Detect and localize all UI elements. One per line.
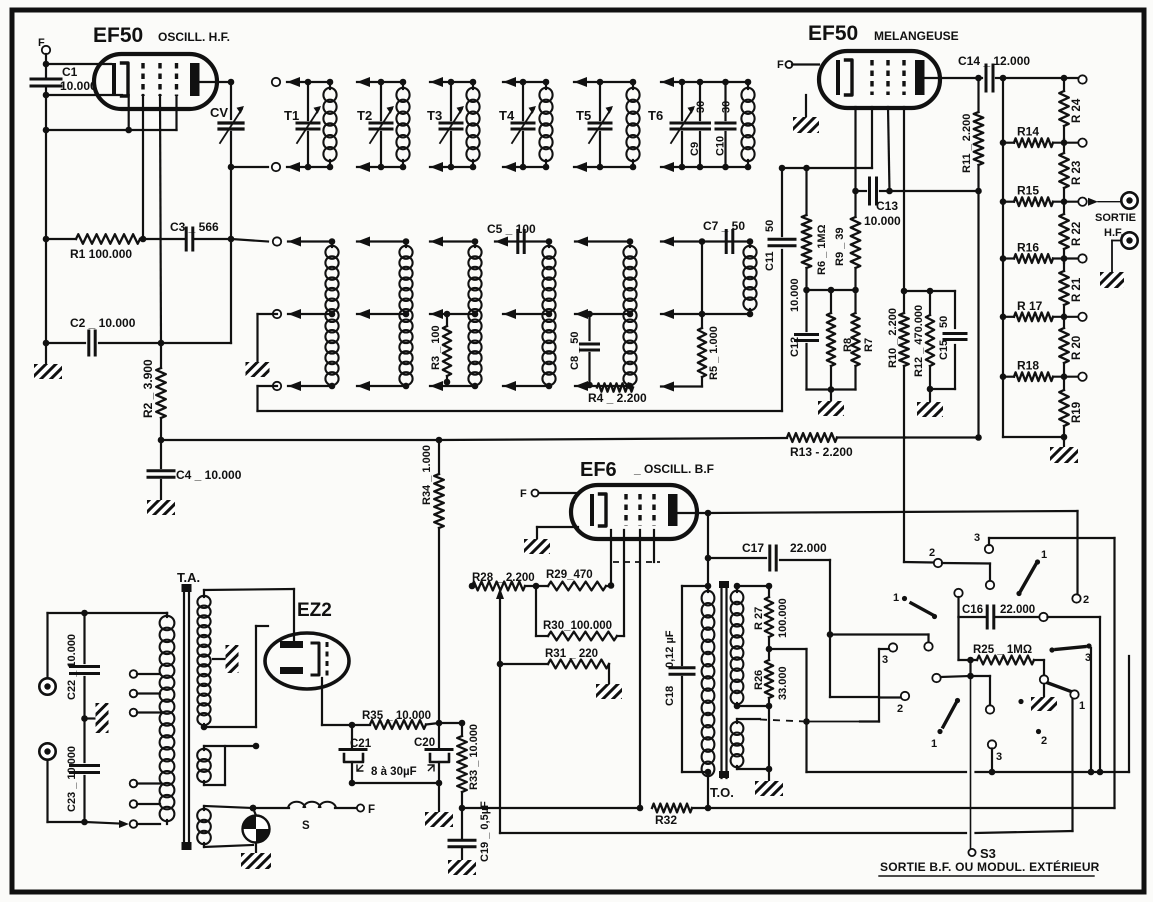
svg-text:F: F — [368, 804, 375, 816]
dashed wire sec bottom — [760, 718, 810, 725]
resistor R7 — [851, 290, 875, 390]
svg-text:C13: C13 — [876, 199, 898, 213]
ladder bottom wire and ground — [1003, 434, 1078, 463]
tuned circuit T3 — [427, 77, 480, 172]
tuned circuit T6 with C9 C10 — [648, 77, 748, 172]
svg-text:R6 _ 1MΩ: R6 _ 1MΩ — [816, 224, 828, 275]
jack sortie HF ground — [1112, 232, 1138, 272]
svg-text:C8 _ 50: C8 _ 50 — [569, 331, 581, 370]
svg-text:F: F — [777, 59, 784, 71]
svg-text:C22 _ 10.000: C22 _ 10.000 — [66, 634, 78, 700]
capacitor C4 10.000 — [148, 440, 242, 500]
transformer TO primary — [702, 586, 715, 776]
TA primary taps bottom — [130, 780, 160, 788]
tube V4 EZ2 rectifier — [265, 633, 349, 689]
svg-text:T3: T3 — [427, 108, 442, 123]
ground below R12 — [917, 389, 943, 417]
wire R34 node to R33 — [439, 722, 462, 724]
svg-text:S: S — [302, 820, 310, 832]
contact 2 right — [1072, 594, 1089, 606]
svg-text:R11 _ 2.200: R11 _ 2.200 — [961, 114, 973, 173]
wire C3 to switch row1 — [231, 239, 268, 242]
ground below C4 — [147, 500, 175, 515]
svg-text:1: 1 — [931, 738, 937, 750]
wire contact2 branch — [942, 563, 990, 580]
resistor R5 1.000 — [661, 242, 720, 392]
tube V3 EF6 oscillator BF — [571, 485, 697, 539]
resistor R23 — [1059, 139, 1083, 202]
resistor R17 — [1000, 299, 1087, 321]
svg-text:R19: R19 — [1071, 402, 1083, 423]
coil T6 — [741, 79, 754, 171]
svg-text:R 20: R 20 — [1071, 336, 1083, 360]
jack sortie HF hot — [1121, 192, 1137, 208]
svg-text:R26: R26 — [753, 670, 765, 690]
label EZ2 — [297, 600, 332, 621]
ground below V2 — [793, 95, 819, 133]
svg-text:R12 _ 470.000: R12 _ 470.000 — [913, 305, 925, 377]
wire cathode V3 to ground — [524, 527, 578, 554]
svg-text:1: 1 — [1041, 549, 1047, 561]
capacitor C14 12.000 — [958, 54, 1030, 91]
svg-text:R1 100.000: R1 100.000 — [70, 247, 132, 261]
svg-text:R15: R15 — [1017, 184, 1039, 198]
capacitor C5 100 — [487, 222, 536, 253]
resistor R33 10.000 — [457, 720, 480, 812]
resistor R10 2.200 — [887, 291, 909, 562]
label EF6 — [580, 459, 714, 481]
contact feed node — [932, 660, 990, 705]
svg-text:R32: R32 — [655, 813, 677, 827]
ground below lamp — [241, 853, 271, 869]
ground HT center tap — [213, 645, 239, 673]
svg-text:SORTIE: SORTIE — [1095, 212, 1136, 224]
svg-text:R29_470: R29_470 — [546, 569, 593, 581]
label EF50 V1 — [93, 24, 230, 47]
svg-text:1: 1 — [893, 592, 899, 604]
svg-text:33.000: 33.000 — [777, 666, 789, 700]
pilot lamp — [243, 805, 270, 853]
wire cathode-g3 V1 — [43, 95, 177, 133]
TA primary taps top — [130, 670, 160, 678]
TA HT secondary — [197, 589, 294, 730]
oscillator coil L4 — [495, 237, 556, 392]
choke S and terminal F — [253, 802, 375, 832]
bus wire low 833 — [500, 699, 1073, 833]
wire grid2 V1 to C2 node — [160, 95, 161, 343]
wire CV bottom to row — [231, 167, 268, 239]
label TA — [177, 570, 200, 585]
contact circle mid — [924, 642, 932, 650]
contact 2 left switch — [879, 692, 909, 715]
wire C21 C20 bottom bus — [352, 780, 442, 812]
svg-text:EZ2: EZ2 — [297, 600, 332, 621]
svg-text:50: 50 — [938, 316, 950, 328]
svg-text:EF50: EF50 — [808, 22, 858, 45]
svg-text:C18: C18 — [664, 686, 676, 706]
capacitor C17 22.000 — [705, 541, 830, 570]
svg-text:MELANGEUSE: MELANGEUSE — [874, 29, 959, 43]
capacitor C22 10.000 — [66, 613, 99, 719]
svg-text:3: 3 — [882, 654, 888, 666]
wire C2 node to CV bottom — [161, 239, 231, 343]
svg-text:R28 _ 2.200: R28 _ 2.200 — [472, 572, 535, 584]
tuned circuit T4 — [499, 77, 553, 172]
svg-text:C2 _ 10.000: C2 _ 10.000 — [70, 316, 136, 330]
wire wiper to low bus — [499, 664, 501, 833]
contact right of C16 — [1039, 613, 1103, 776]
svg-text:C15: C15 — [938, 340, 950, 360]
resistor R15 — [1000, 184, 1087, 206]
ground below R31 — [596, 684, 622, 699]
capacitor C9 30 — [689, 79, 710, 171]
switch blade 3 right — [1049, 643, 1094, 775]
resistor R3 100 — [430, 311, 451, 386]
svg-text:30: 30 — [695, 101, 707, 113]
wire left rail to C2 — [45, 239, 47, 343]
svg-text:R7: R7 — [863, 338, 875, 352]
wire anode down to TO — [705, 513, 712, 589]
svg-text:T6: T6 — [648, 108, 663, 123]
wire g3 V2 down to R10 — [901, 107, 908, 294]
bus wire corner 1129 — [1128, 656, 1130, 772]
svg-text:0,12 µF: 0,12 µF — [664, 630, 676, 668]
resistor R24 — [1059, 77, 1083, 140]
resistor R20 — [1059, 314, 1083, 377]
bus wire HT bottom R32 line — [462, 805, 644, 812]
TA lamp winding — [197, 805, 256, 847]
svg-text:C14 _ 12.000: C14 _ 12.000 — [958, 54, 1030, 68]
resistor R30 100.000 — [536, 530, 624, 640]
oscillator coil L2 — [357, 237, 413, 392]
svg-text:SORTIE B.F. OU MODUL. EXTÉRI: SORTIE B.F. OU MODUL. EXTÉRIEUR — [880, 859, 1100, 874]
svg-text:2: 2 — [1041, 735, 1047, 747]
contact below 2 — [986, 581, 994, 589]
wire R27 junction to switch — [769, 649, 807, 772]
wire S3 drop — [970, 676, 972, 849]
wire cathode bottom V1 — [43, 92, 122, 99]
svg-text:R4 _ 2.200: R4 _ 2.200 — [588, 391, 647, 405]
resistor R22 — [1059, 200, 1083, 263]
resistor R19 — [1059, 376, 1083, 440]
label TO — [710, 785, 734, 800]
resistor R8 — [827, 287, 854, 393]
svg-text:2: 2 — [1083, 594, 1089, 606]
contact below feed — [986, 705, 994, 713]
resistor R34 1.000 — [421, 440, 444, 723]
svg-text:T2: T2 — [357, 108, 372, 123]
wire anode bus to switch — [708, 511, 1078, 594]
resistor R21 — [1059, 257, 1083, 319]
wire R26 bottom to ground — [755, 706, 783, 796]
wire bias node and ground — [807, 390, 856, 417]
wire ladder left bus — [1002, 78, 1004, 437]
svg-text:C10: C10 — [715, 136, 727, 156]
svg-text:C11: C11 — [764, 251, 776, 271]
svg-text:C1: C1 — [62, 65, 78, 79]
capacitor C12 10.000 — [789, 278, 818, 389]
capacitor C11 50 — [764, 168, 795, 271]
contact 3 left switch — [879, 643, 897, 721]
svg-text:S3: S3 — [980, 846, 996, 861]
TA core — [182, 584, 192, 850]
svg-text:2: 2 — [897, 703, 903, 715]
resistor R25 1M — [959, 617, 1045, 674]
switch blade 1 left — [893, 592, 937, 619]
svg-text:R18: R18 — [1017, 359, 1039, 373]
resistor R11 2.200 — [961, 75, 983, 191]
oscillator coil L3 — [430, 237, 482, 392]
svg-text:C16: C16 — [962, 604, 983, 616]
label EF50 V2 — [808, 22, 959, 45]
svg-text:30: 30 — [721, 101, 733, 113]
switch blade 1 bottom — [931, 698, 960, 750]
terminal F heater V1 — [38, 37, 50, 64]
svg-text:_ OSCILL. B.F: _ OSCILL. B.F — [633, 462, 714, 476]
ground at L1 mid tap — [246, 314, 278, 377]
terminal F heater V2 — [777, 59, 819, 71]
wire TO primary bottom to bus — [707, 772, 709, 808]
terminal S3 — [968, 846, 996, 861]
wire g1 V2 to line168 — [871, 107, 873, 168]
svg-text:R2 _ 3.900: R2 _ 3.900 — [141, 359, 155, 418]
svg-text:10.000: 10.000 — [60, 79, 97, 93]
TA primary winding — [160, 613, 175, 824]
stray dot — [1018, 699, 1023, 704]
resistor R18 — [1000, 359, 1087, 381]
svg-text:C20: C20 — [414, 737, 435, 749]
capacitor C13 10.000 — [856, 178, 902, 228]
svg-text:C3 _ 566: C3 _ 566 — [170, 220, 219, 234]
svg-text:C9: C9 — [689, 142, 701, 156]
resistor R31 220 — [497, 648, 609, 684]
wire bottom coil bus to C11 — [258, 250, 783, 411]
suppressor dashes V3 — [613, 530, 660, 562]
svg-text:100.000: 100.000 — [777, 598, 789, 638]
svg-text:R 17: R 17 — [1017, 299, 1043, 313]
wire line168 C11 R6 — [779, 165, 872, 172]
TA filament winding EZ2 — [197, 743, 259, 785]
ground below C2 — [34, 340, 62, 379]
capacitor C15 50 — [930, 291, 966, 389]
svg-text:R 27: R 27 — [753, 607, 765, 630]
contact 1 with ground blade — [1031, 675, 1085, 712]
resistor R26 33.000 — [753, 649, 789, 709]
resistor R1 100.000 — [43, 234, 186, 261]
resistor R32 — [652, 804, 711, 827]
wiper arrow R28 — [496, 588, 504, 664]
oscillator coil L1 — [273, 237, 339, 392]
tube V1 EF50 oscillator HF — [94, 54, 217, 109]
svg-text:T5: T5 — [576, 108, 591, 123]
capacitor C2 10.000 — [46, 316, 164, 355]
svg-text:2: 2 — [929, 547, 935, 559]
svg-text:R35 _ 10.000: R35 _ 10.000 — [362, 710, 431, 722]
capacitor C18 0,12uF — [664, 586, 708, 772]
bus wire to right riser — [708, 538, 1115, 808]
capacitor C23 10.000 — [66, 719, 99, 823]
resistor R16 — [1000, 241, 1087, 263]
svg-text:10.000: 10.000 — [789, 278, 801, 312]
svg-text:R 21: R 21 — [1071, 277, 1083, 302]
svg-text:T1: T1 — [284, 108, 299, 123]
wire R11 bottom to R13 right — [977, 191, 979, 438]
contact 3 bottom — [988, 740, 1002, 775]
svg-text:T.A.: T.A. — [177, 570, 200, 585]
resistor R13 2.200 — [787, 433, 982, 459]
resistor R14 — [1000, 125, 1087, 147]
ground below C20 — [425, 812, 453, 827]
capacitor C21 electrolytic — [340, 725, 372, 786]
svg-text:EF6: EF6 — [580, 459, 617, 481]
bus wire audio 772 — [807, 771, 1130, 773]
wire EZ2 cathode out — [322, 678, 355, 728]
TA primary tap lowest with arrow — [81, 819, 160, 828]
arrow to sortie HF — [1088, 198, 1121, 206]
contact 2 top — [929, 547, 942, 567]
ground below C19 — [448, 860, 476, 875]
wire L1 bottom tap to bus — [258, 386, 278, 411]
svg-text:R 22: R 22 — [1071, 222, 1083, 246]
svg-text:CV: CV — [210, 105, 228, 120]
svg-text:R9 _ 39: R9 _ 39 — [834, 227, 846, 266]
capacitor C20 electrolytic — [414, 723, 452, 783]
anode wire V2 to C14 — [925, 77, 982, 79]
wire cathode V2 down — [852, 107, 859, 194]
svg-text:C21: C21 — [350, 738, 372, 750]
wire EZ2 anode1 top — [293, 589, 295, 641]
capacitor C10 30 — [715, 79, 736, 171]
wire grid1 V1 to R1 — [142, 95, 144, 239]
svg-text:R13 - 2.200: R13 - 2.200 — [790, 445, 853, 459]
svg-text:R16: R16 — [1017, 241, 1039, 255]
TO secondary bottom — [731, 719, 769, 769]
resistor R29 470 — [525, 569, 611, 590]
oscillator coil L5 — [575, 237, 637, 392]
resistor R35 10.000 — [352, 710, 442, 729]
switch blade 1 top — [1016, 549, 1047, 596]
capacitor C1 10.000 — [31, 64, 97, 239]
resistor R4 2.200 — [588, 383, 647, 405]
svg-text:C12: C12 — [789, 337, 801, 357]
TO core — [719, 581, 729, 778]
label sortie BF — [879, 859, 1100, 876]
svg-text:22.000: 22.000 — [1000, 604, 1035, 616]
wire HT bottom to EZ2 — [204, 626, 268, 727]
wire ladder top — [1003, 75, 1078, 82]
label SORTIE H.F. — [1095, 212, 1136, 239]
jack antenna input — [39, 613, 84, 695]
wire TA primary top — [81, 610, 167, 617]
svg-text:3: 3 — [974, 532, 980, 544]
svg-text:3: 3 — [996, 751, 1002, 763]
resistor R9 39 — [834, 191, 860, 293]
wire C13 to R11 bottom — [890, 188, 982, 195]
wire cathode node — [807, 289, 856, 291]
jack ground input — [39, 743, 84, 822]
resistor R12 470.000 — [904, 288, 955, 393]
resistor R27 100.000 — [753, 583, 789, 653]
ground below jack — [1100, 272, 1124, 288]
label 8 a 30uF — [357, 765, 434, 779]
wire g1 V3 down — [608, 530, 615, 589]
anode wire V3 — [677, 510, 711, 517]
svg-text:R14: R14 — [1017, 125, 1039, 139]
wire g2 V2 to C13 — [888, 107, 890, 191]
svg-text:C7 _ 50: C7 _ 50 — [703, 219, 745, 233]
resistor R2 3.900 — [141, 343, 166, 443]
svg-text:C23 _ 10.000: C23 _ 10.000 — [66, 746, 78, 812]
svg-text:OSCILL. H.F.: OSCILL. H.F. — [158, 30, 230, 44]
svg-text:EF50: EF50 — [93, 24, 143, 47]
capacitor C19 0,5uF — [449, 801, 491, 862]
svg-text:R33 _ 10.000: R33 _ 10.000 — [468, 724, 480, 790]
svg-text:C4 _ 10.000: C4 _ 10.000 — [176, 468, 242, 482]
wire HT bus to R13 — [161, 437, 787, 444]
variable capacitor CV — [210, 82, 244, 170]
wire V2 g3 line to contact 2 — [904, 561, 933, 564]
svg-text:C5 _ 100: C5 _ 100 — [487, 222, 536, 236]
TO secondary top — [731, 583, 769, 710]
wire to TO dashed node — [807, 720, 879, 722]
svg-text:F: F — [520, 488, 527, 500]
tuned circuit T1 — [272, 77, 337, 172]
tuned circuit T2 — [357, 77, 410, 172]
svg-text:50: 50 — [764, 220, 776, 232]
svg-text:T.O.: T.O. — [710, 785, 734, 800]
contact 3 top — [974, 532, 1115, 553]
svg-text:R 24: R 24 — [1071, 98, 1083, 123]
tuned circuit T5 — [574, 77, 640, 172]
svg-text:R25 _ 1MΩ: R25 _ 1MΩ — [973, 644, 1032, 656]
svg-text:R10 _ 2.200: R10 _ 2.200 — [887, 308, 899, 368]
wire C17 right to contacts — [827, 560, 929, 697]
capacitor C8 50 — [569, 311, 599, 389]
svg-text:C17: C17 — [742, 541, 764, 555]
capacitor C16 22.000 — [954, 589, 1039, 628]
svg-text:10.000: 10.000 — [864, 214, 901, 228]
svg-text:R5 _ 1.000: R5 _ 1.000 — [708, 326, 720, 380]
svg-text:R31 _ 220: R31 _ 220 — [545, 648, 598, 660]
svg-text:R 23: R 23 — [1071, 161, 1083, 185]
terminal top ladder — [1078, 75, 1086, 83]
svg-text:8 à 30µF: 8 à 30µF — [371, 766, 417, 778]
svg-text:R3 _ 100: R3 _ 100 — [430, 325, 442, 370]
terminal F heater V3 — [520, 488, 578, 500]
svg-text:R30_100.000: R30_100.000 — [543, 620, 612, 632]
capacitor C3 566 — [170, 220, 234, 250]
svg-text:R34 _ 1.000: R34 _ 1.000 — [421, 445, 433, 505]
resistor R6 1M — [802, 168, 828, 293]
wire anode V1 — [199, 79, 234, 86]
svg-text:1: 1 — [1079, 700, 1085, 712]
capacitor C7 50 — [699, 219, 746, 253]
svg-text:22.000: 22.000 — [790, 541, 827, 555]
dot 2 bottom — [1036, 729, 1047, 747]
ground mid C22 C23 — [81, 703, 108, 733]
svg-text:C19 _ 0,5µF: C19 _ 0,5µF — [479, 801, 491, 862]
oscillator coil L6 — [661, 237, 757, 320]
wire g2 V3 to bus — [639, 530, 641, 808]
svg-text:T4: T4 — [499, 108, 515, 123]
tube V2 EF50 mixer — [819, 51, 940, 108]
resistor R28 2.200 potentiometer — [469, 572, 535, 590]
wire heater top V1 — [43, 61, 111, 68]
